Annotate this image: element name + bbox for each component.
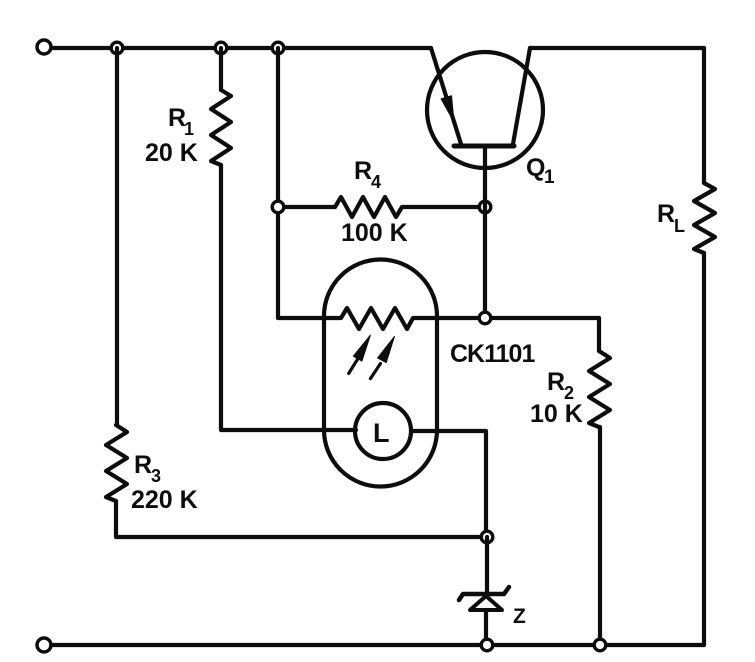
svg-text:4: 4 <box>371 172 381 192</box>
resistor R1 <box>211 90 231 165</box>
svg-text:3: 3 <box>151 466 161 486</box>
node R4 left <box>272 201 284 213</box>
photoresistor inside CK1101 <box>278 308 599 329</box>
svg-text:R: R <box>354 157 372 185</box>
svg-text:L: L <box>373 418 390 448</box>
wire bottom rail <box>44 643 704 647</box>
resistor R3 <box>106 425 127 501</box>
wire right branch: top rail corner down to RL <box>702 48 706 183</box>
svg-text:20 K: 20 K <box>145 139 198 167</box>
light arrow right <box>370 336 394 378</box>
svg-text:L: L <box>674 216 685 236</box>
node top rail at x=278 <box>272 42 284 54</box>
svg-text:Q: Q <box>526 154 545 182</box>
resistor R2 <box>589 351 610 427</box>
svg-text:R: R <box>134 451 152 479</box>
wire R2 branch: from photoresistor node right, down through R2 to bottom rail <box>597 318 601 351</box>
svg-text:R: R <box>657 200 675 228</box>
node R4 right <box>479 201 491 213</box>
wire top rail left segment <box>44 46 431 50</box>
svg-text:R: R <box>547 368 565 396</box>
wire top rail right segment <box>530 46 704 50</box>
svg-text:220 K: 220 K <box>131 486 198 514</box>
wire lamp right to corner and down to zener node <box>411 431 486 537</box>
wire R1 bottom down and right to lamp <box>221 165 356 430</box>
wire branch x=221 top rail to R1 <box>219 48 223 90</box>
resistor RL <box>694 183 715 253</box>
light arrow left <box>349 335 371 373</box>
node bottom rail zener <box>481 639 493 651</box>
zener diode Z <box>459 587 509 645</box>
wire x=278 from R4 node down to photoresistor lead <box>276 207 280 318</box>
resistor R4 <box>278 197 485 217</box>
wire transistor base node down to photocell node <box>483 207 487 319</box>
wire zener node down to zener <box>485 537 489 594</box>
node photoresistor right / base line junction <box>479 312 491 324</box>
transistor Q1 <box>427 48 543 207</box>
node top rail at x=117 <box>111 42 123 54</box>
svg-text:CK1101: CK1101 <box>450 340 535 368</box>
svg-text:Z: Z <box>513 605 526 628</box>
svg-text:10 K: 10 K <box>530 400 583 428</box>
terminal top-left <box>37 40 51 54</box>
wire left branch x=117 down to R3 <box>115 48 119 425</box>
wire R2 bottom to bottom rail <box>598 427 602 645</box>
node bottom rail R2 <box>594 639 606 651</box>
svg-text:100 K: 100 K <box>341 219 408 247</box>
wire RL bottom down to bottom rail corner <box>702 253 706 645</box>
svg-text:1: 1 <box>544 167 555 188</box>
node zener top junction <box>481 531 493 543</box>
wire R3 bottom to corner and right to zener node <box>116 501 487 537</box>
terminal bottom-left <box>37 638 51 652</box>
wire branch x=278 top rail down to R4 node <box>276 48 280 207</box>
photocell CK1101 envelope (stadium outline) <box>324 260 437 487</box>
lamp L circle <box>355 403 411 459</box>
node top rail at x=221 <box>215 42 227 54</box>
svg-text:1: 1 <box>184 119 194 139</box>
